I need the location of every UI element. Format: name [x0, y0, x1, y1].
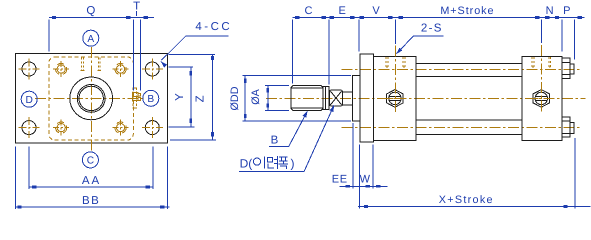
svg-text:X+Stroke: X+Stroke [439, 194, 494, 206]
svg-text:EE: EE [332, 173, 348, 185]
svg-text:): ) [291, 157, 295, 171]
svg-text:Z: Z [195, 95, 207, 102]
svg-text:D(: D( [240, 157, 253, 171]
svg-text:B: B [147, 94, 154, 105]
svg-text:D: D [26, 95, 33, 106]
svg-text:P: P [563, 5, 570, 17]
svg-text:Y: Y [174, 93, 186, 101]
svg-text:AA: AA [82, 175, 101, 187]
svg-text:E: E [339, 5, 346, 17]
svg-text:Q: Q [86, 5, 95, 17]
svg-text:B: B [271, 135, 279, 147]
svg-text:A: A [87, 34, 94, 45]
svg-text:2-S: 2-S [421, 23, 443, 35]
svg-text:ØA: ØA [250, 88, 262, 104]
svg-text:M+Stroke: M+Stroke [440, 5, 494, 17]
svg-text:C: C [87, 156, 94, 167]
svg-text:N: N [546, 5, 554, 17]
svg-text:BB: BB [82, 195, 100, 207]
svg-text:ØDD: ØDD [229, 86, 241, 110]
svg-text:4-CC: 4-CC [195, 21, 232, 33]
svg-text:W: W [360, 173, 371, 185]
svg-text:V: V [372, 5, 380, 17]
svg-text:C: C [305, 5, 313, 17]
